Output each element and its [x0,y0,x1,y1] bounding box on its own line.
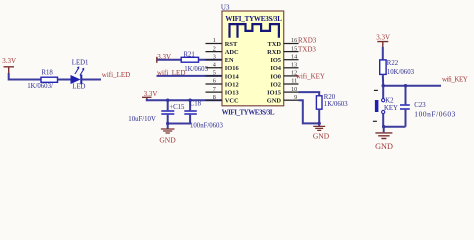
ground (decoupling caps) [167,124,169,129]
wire LED1 to net label [81,79,101,81]
svg-text:100nF/0603: 100nF/0603 [190,122,223,129]
pin 6 IO12 [206,83,223,85]
svg-text:K2: K2 [385,98,394,105]
svg-text:GND: GND [313,132,330,141]
wire R21 to pin 3 EN [199,59,223,61]
wire pin 10 to R20 [299,92,320,96]
svg-text:C18: C18 [190,100,202,107]
power 3.3V (VCC rail) [142,97,152,99]
svg-text:TXD: TXD [268,41,282,48]
pin 8 VCC [206,99,223,101]
resistor R18 [41,77,58,82]
svg-text:GND: GND [267,98,282,105]
resistor R22 [380,60,386,75]
svg-text:3: 3 [213,53,216,60]
ground (R20 / pin 9) [318,123,320,126]
svg-text:IO12: IO12 [225,81,239,88]
svg-text:10K/0603: 10K/0603 [387,69,415,76]
pin 2 ADC [206,51,223,53]
pin 15 RXD [284,51,299,53]
pin 9 GND [284,99,299,101]
svg-text:IO14: IO14 [225,73,240,80]
wire K2/C23 bottoms [383,126,405,128]
svg-text:9: 9 [294,94,297,101]
junction node R22/K2 [382,84,385,87]
svg-text:100nF/0603: 100nF/0603 [414,109,455,118]
svg-text:1K/0603: 1K/0603 [184,66,208,73]
wire pin 9 to ground [299,100,320,123]
IC U3 body [222,11,284,106]
svg-text:10uF/10V: 10uF/10V [128,116,156,123]
capacitor C23 [400,86,410,127]
svg-text:GND: GND [159,135,176,144]
svg-text:3.3V: 3.3V [376,34,390,42]
wire VCC rail to pin 8 [147,99,222,100]
junction ground node [382,125,385,128]
svg-text:R18: R18 [42,70,54,77]
svg-text:16: 16 [291,37,297,44]
svg-text:1K/0603/: 1K/0603/ [27,83,53,90]
svg-text:wifi_KEY: wifi_KEY [442,75,468,83]
pin 14 IO5 [284,59,299,61]
wire power to R18 [9,73,41,80]
svg-text:RXD3: RXD3 [298,36,317,44]
svg-text:IO16: IO16 [225,65,240,72]
wire R22 to node [382,74,384,85]
capacitor C18 [168,100,197,123]
svg-text:KEY: KEY [384,105,398,112]
svg-text:IO4: IO4 [270,65,281,72]
svg-text:R21: R21 [184,52,195,59]
svg-text:4: 4 [213,62,216,69]
svg-text:14: 14 [291,53,297,60]
svg-text:LED: LED [72,83,85,90]
svg-text:IO5: IO5 [270,57,281,64]
svg-text:WIFI_TYWE3S/3L: WIFI_TYWE3S/3L [222,109,275,117]
pin 11 IO2 [284,83,299,85]
svg-text:R22: R22 [387,60,399,67]
svg-text:IO2: IO2 [270,81,281,88]
svg-text:TXD3: TXD3 [298,46,316,54]
svg-text:15: 15 [291,45,297,52]
power 3.3V (EN pull-up) [156,57,158,63]
pin 10 IO15 [284,91,299,93]
wire R20 to ground [318,109,320,123]
svg-text:wifi_LED: wifi_LED [102,71,130,79]
svg-text:ADC: ADC [225,49,239,56]
svg-text:7: 7 [213,86,216,93]
wire node to K2 [382,86,384,99]
svg-text:WIFI_TYWE3S/3L: WIFI_TYWE3S/3L [225,15,282,23]
svg-text:13: 13 [291,62,297,69]
ground (key) [383,127,385,133]
junction R20 bottom [318,122,321,125]
pin 5 IO14 [206,75,223,77]
svg-text:10: 10 [291,86,297,93]
svg-text:6: 6 [213,78,216,85]
antenna meander [230,24,279,38]
svg-text:RST: RST [225,41,238,48]
wire node to wifi_KEY [383,85,441,87]
svg-text:1K/0603: 1K/0603 [324,101,348,108]
svg-text:RXD: RXD [267,49,281,56]
junction C18 top [188,99,191,102]
svg-text:5: 5 [213,70,216,77]
pin 7 IO13 [206,91,223,93]
pin 13 IO4 [284,67,299,69]
pin 16 TXD [284,43,299,45]
pin 3 EN [206,59,223,61]
svg-text:2: 2 [213,45,216,52]
svg-text:IO15: IO15 [267,90,281,97]
junction C15 bottom [166,122,169,125]
svg-text:IO13: IO13 [225,90,239,97]
svg-text:EN: EN [225,57,234,64]
svg-text:VCC: VCC [225,98,239,105]
svg-text:C23: C23 [414,102,426,109]
svg-text:IO0: IO0 [270,73,281,80]
wire power to R21 [157,59,181,61]
wire R18 to LED1 [58,79,71,81]
svg-text:3.3V: 3.3V [2,57,16,65]
svg-text:GND: GND [375,142,393,151]
svg-text:LED1: LED1 [72,60,89,67]
svg-text:U3: U3 [221,3,230,11]
power 3.3V (LED branch) [4,67,15,74]
power 3.3V (key pull-up) [377,42,388,48]
svg-text:R20: R20 [324,94,336,101]
svg-text:8: 8 [213,94,216,101]
pin 12 IO0 [284,75,299,77]
pin 1 RST [206,43,223,45]
svg-text:3.3V: 3.3V [144,90,158,98]
resistor R20 [316,96,322,109]
pin 4 IO16 [206,67,223,69]
junction C23 top [404,84,407,87]
svg-text:wifi_KEY: wifi_KEY [296,73,325,81]
svg-text:1: 1 [213,37,216,44]
LED D LED1 [71,66,85,84]
pushbutton K2 [373,90,385,121]
wire K2 to ground [382,114,384,127]
wire power to R22 [382,47,384,60]
capacitor C15 [161,100,174,123]
junction C15 top [166,99,169,102]
svg-text:+C15: +C15 [169,104,185,111]
resistor R21 [181,57,198,62]
wire wifi_LED to pin 5 [157,75,223,77]
